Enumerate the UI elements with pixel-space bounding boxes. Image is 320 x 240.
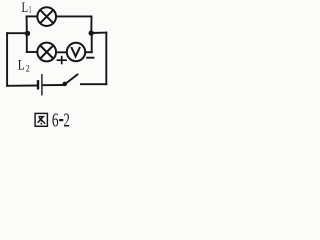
wire voltmeter to right riser bbox=[86, 51, 92, 53]
caption tu character bbox=[35, 113, 47, 126]
battery BT1 positive plate bbox=[41, 74, 43, 95]
node B junction dot bbox=[89, 30, 94, 35]
wire top-left lead to lamp L1 bbox=[27, 15, 37, 17]
wire node B right to outer loop bbox=[91, 32, 106, 34]
wire to lamp L2 bbox=[27, 51, 37, 53]
svg-text:1: 1 bbox=[29, 6, 32, 16]
wire lamp L1 to top-right corner bbox=[57, 15, 92, 17]
wire left side down bbox=[6, 33, 8, 86]
wire node A left to outer loop bbox=[7, 32, 27, 34]
lamp L1 bbox=[37, 7, 56, 26]
wire riser up to node B bbox=[91, 33, 93, 52]
wire node A down to L2 branch bbox=[26, 33, 28, 52]
svg-text:2: 2 bbox=[26, 65, 30, 75]
voltmeter V letter bbox=[71, 47, 80, 57]
svg-text:L: L bbox=[18, 58, 25, 74]
caption hyphen bbox=[59, 119, 63, 121]
svg-text:L: L bbox=[22, 0, 29, 16]
wire right side down bbox=[105, 33, 107, 85]
wire top-right corner down to node B bbox=[90, 16, 92, 33]
svg-text:6: 6 bbox=[52, 109, 59, 131]
wire top-left corner down to node A bbox=[26, 16, 28, 33]
switch S1 pivot bbox=[63, 82, 68, 87]
voltmeter U1 bbox=[67, 43, 85, 61]
wire battery to switch pivot bbox=[43, 84, 63, 86]
battery BT1 negative plate bbox=[37, 80, 39, 89]
svg-text:2: 2 bbox=[64, 109, 70, 131]
plus polarity label bbox=[57, 56, 67, 65]
node A junction dot bbox=[25, 31, 30, 36]
wire bottom-left to battery bbox=[7, 85, 37, 87]
minus polarity label bbox=[86, 57, 94, 59]
wire lamp L2 to plus node bbox=[57, 51, 66, 53]
switch S1 lever bbox=[65, 74, 78, 84]
wire bottom-right to switch bbox=[81, 83, 106, 85]
lamp L2 bbox=[37, 43, 56, 62]
